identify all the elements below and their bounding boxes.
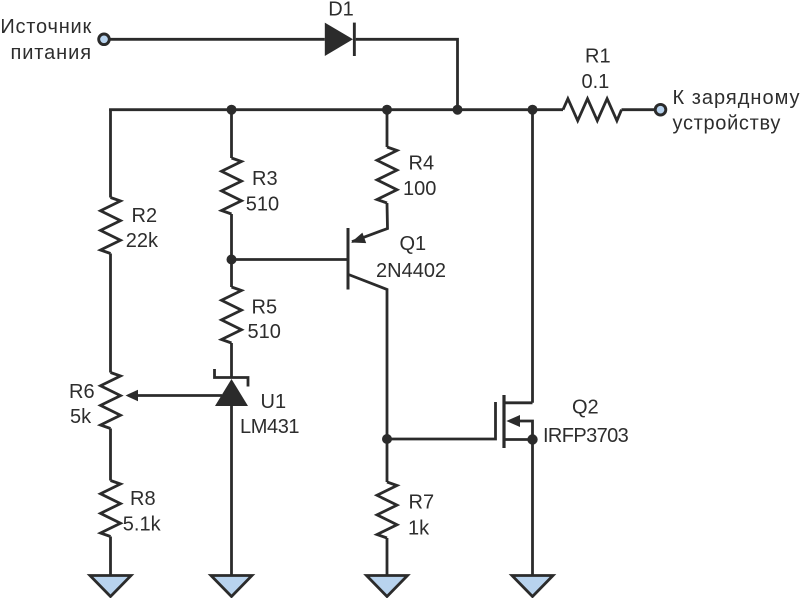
svg-text:5.1k: 5.1k	[123, 513, 162, 535]
svg-text:R3: R3	[252, 168, 278, 190]
svg-text:100: 100	[403, 178, 436, 200]
svg-text:R1: R1	[585, 46, 611, 68]
svg-text:0.1: 0.1	[582, 71, 610, 93]
svg-text:U1: U1	[261, 391, 287, 413]
svg-text:510: 510	[246, 193, 279, 215]
svg-text:Q2: Q2	[572, 397, 599, 419]
svg-text:IRFP3703: IRFP3703	[543, 425, 629, 447]
svg-text:Источник: Источник	[0, 16, 92, 38]
svg-text:R8: R8	[130, 488, 156, 510]
svg-text:5k: 5k	[70, 406, 92, 428]
svg-text:R6: R6	[69, 381, 95, 403]
svg-text:R4: R4	[409, 152, 435, 174]
svg-text:2N4402: 2N4402	[376, 260, 446, 282]
svg-text:LM431: LM431	[240, 416, 299, 438]
svg-text:R5: R5	[252, 297, 278, 319]
svg-text:510: 510	[248, 321, 281, 343]
svg-text:R7: R7	[409, 492, 435, 514]
svg-text:22k: 22k	[126, 230, 159, 252]
svg-text:устройству: устройству	[673, 113, 782, 135]
svg-text:R2: R2	[132, 205, 158, 227]
svg-text:Q1: Q1	[400, 233, 427, 255]
svg-text:D1: D1	[328, 0, 354, 21]
svg-text:питания: питания	[10, 42, 92, 64]
svg-text:К зарядному: К зарядному	[673, 87, 800, 109]
svg-text:1k: 1k	[408, 518, 430, 540]
